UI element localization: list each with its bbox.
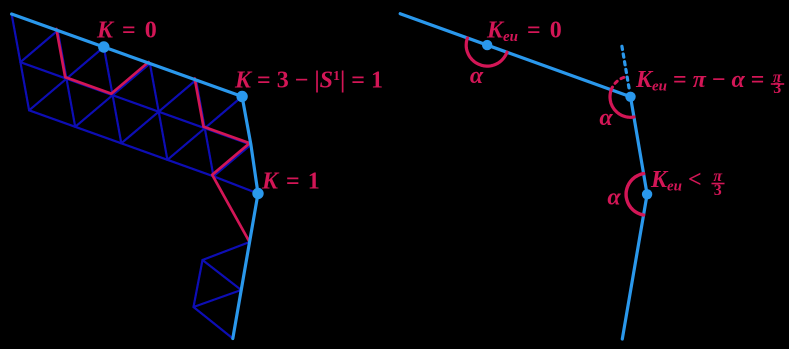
svg-text:K = 3 − |S1| = 1: K = 3 − |S1| = 1: [234, 67, 383, 93]
svg-text:Keu = 0: Keu = 0: [486, 18, 562, 46]
svg-text:3: 3: [714, 182, 722, 199]
svg-text:K = 0: K = 0: [96, 17, 157, 43]
svg-text:K = 1: K = 1: [261, 169, 320, 195]
svg-text:α: α: [599, 105, 613, 131]
svg-text:α: α: [607, 185, 621, 211]
svg-text:α: α: [470, 63, 484, 89]
svg-text:3: 3: [773, 80, 781, 97]
